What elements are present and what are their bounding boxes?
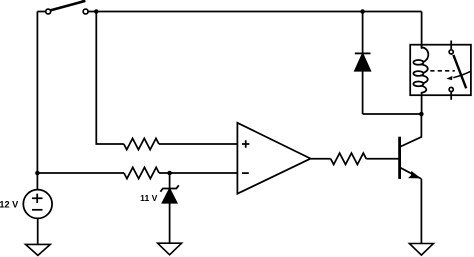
voltage source V1 circle [23,190,52,219]
node junction coil bottom / collector [419,112,424,117]
relay K1 coil entry arc [422,45,429,62]
switch SW1 right contact [83,9,88,14]
wire top horizontal from switch to top-right corner [88,11,421,13]
node junction switch output [94,9,99,14]
wire source bottom to ground [37,218,39,244]
ground under transistor emitter [409,244,433,256]
switch SW1 lever [51,1,86,11]
relay K1 dashed actuator line [430,70,455,72]
relay K1 actuator curved arrow [453,71,470,77]
node junction diode top [360,9,365,14]
relay K1 coil loop 1 [413,60,423,65]
relay K1 lever [453,55,466,88]
wire zener anode to ground [169,203,171,243]
voltage source V1 minus symbol [32,209,43,211]
wire top-right corner down into relay [421,12,423,49]
relay K1 top contact stub [450,41,452,50]
svg-text:11 V: 11 V [140,193,157,203]
diode D1 triangle [355,54,370,71]
node junction source top [35,171,40,176]
svg-text:12 V: 12 V [0,199,19,209]
resistor R2 [124,167,159,178]
wire emitter down to ground [420,179,422,244]
relay K1 top contact [449,50,453,54]
relay K1 coil arc 1-2 [421,64,428,73]
relay K1 bottom contact stub [450,92,452,100]
zener diode D2 triangle [163,189,177,203]
wire top-left horizontal from left rail to switch [37,11,45,13]
transistor Q1 collector lead [400,114,422,147]
relay K1 coil exit arc [421,86,427,114]
diode D1 cathode bar [355,52,371,54]
relay K1 coil loop 2 [413,71,423,76]
wire R1 to op-amp plus input [159,143,238,145]
op-amp U1 body [237,123,310,194]
wire R3 to transistor base [366,158,399,160]
wire diode branch vertical [362,12,364,115]
transistor Q1 emitter lead [400,167,422,179]
relay K1 coil loop 3 [413,82,423,87]
wire zener junction down to zener cathode [169,173,171,189]
relay K1 box [410,45,471,95]
zener diode D2 cathode bar [160,185,178,191]
wire source junction to R2 [37,172,124,174]
wire vertical from switch junction down to R1 row [96,12,124,145]
wire op-amp output to R3 [311,158,331,160]
op-amp minus input symbol [242,172,249,174]
resistor R3 [331,153,367,164]
node junction zener top [167,171,172,176]
relay K1 coil arc 2-3 [421,75,428,83]
ground under source [26,244,51,255]
switch SW1 left contact [46,9,51,14]
ground under zener [158,243,182,255]
transistor Q1 base bar [398,137,401,179]
op-amp plus input symbol [242,140,249,147]
resistor R1 [124,138,159,149]
voltage source V1 plus symbol [32,194,43,203]
wire R2 to op-amp minus input [159,172,237,174]
transistor Q1 emitter arrow [409,172,419,178]
relay K1 actuator arrowhead [446,76,452,80]
wire left vertical rail [36,12,38,190]
relay K1 bottom contact [449,87,453,91]
wire bottom of diode to coil junction [363,113,422,115]
